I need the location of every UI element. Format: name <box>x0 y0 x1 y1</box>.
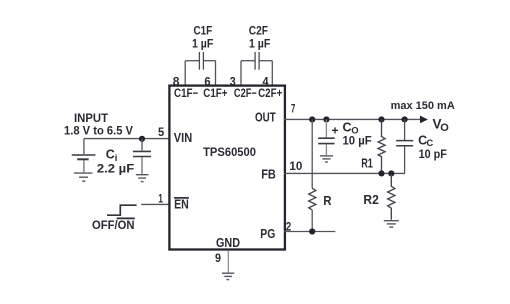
svg-text:C2F: C2F <box>249 25 268 37</box>
ground (battery) <box>74 173 93 181</box>
svg-text:C1F: C1F <box>194 25 213 37</box>
svg-text:1 µF: 1 µF <box>249 39 270 51</box>
capacitor C2F leads <box>241 60 255 62</box>
svg-text:INPUT: INPUT <box>74 113 108 125</box>
svg-text:7: 7 <box>291 101 296 115</box>
capacitor C2F plates <box>254 52 256 70</box>
svg-text:C1F+: C1F+ <box>203 86 227 100</box>
svg-text:+: + <box>332 123 339 137</box>
node: VIN junction dot <box>139 136 145 142</box>
ground (R2) <box>384 221 399 227</box>
svg-text:C2F−: C2F− <box>234 86 257 100</box>
svg-text:R: R <box>323 194 331 208</box>
battery input source stem <box>83 139 85 154</box>
svg-text:O: O <box>440 122 449 134</box>
wire: C2F down-leads to pins 3 and 4 <box>240 61 242 85</box>
resistor R lower wire <box>311 210 313 232</box>
node dot PG/R <box>309 228 315 234</box>
ground (Ci) <box>136 175 149 182</box>
wire: input VIN wire <box>84 138 169 140</box>
resistor R zigzag <box>309 188 316 210</box>
wire: FB net <box>284 172 405 174</box>
svg-text:C: C <box>343 120 352 134</box>
op-amp U1 TPS60500 IC body <box>169 86 285 250</box>
svg-text:GND: GND <box>216 235 240 250</box>
node dot OUT/Co <box>323 116 329 122</box>
battery input source long plate <box>72 154 96 156</box>
capacitor Cc lower stem <box>404 146 406 173</box>
svg-text:C: C <box>106 148 115 162</box>
battery input source short plate <box>77 158 89 160</box>
resistor R1 <box>378 119 385 173</box>
node dot OUT/R1 <box>378 116 384 122</box>
svg-text:C1F−: C1F− <box>174 86 198 100</box>
svg-text:OUT: OUT <box>255 109 276 124</box>
overline over ON <box>117 217 135 219</box>
svg-text:OFF/ON: OFF/ON <box>92 218 135 232</box>
capacitor Ci plates <box>133 150 151 152</box>
svg-text:C2F+: C2F+ <box>258 86 282 100</box>
svg-text:2.2 µF: 2.2 µF <box>97 162 134 176</box>
resistor R branch: upper wire <box>311 119 313 188</box>
capacitor Ci stem <box>141 139 143 151</box>
svg-text:1: 1 <box>158 191 163 205</box>
node dot FB/R2 <box>388 170 394 176</box>
wire: PG net <box>284 231 335 233</box>
node dot FB/R1 <box>378 170 384 176</box>
svg-text:R2: R2 <box>363 193 378 207</box>
capacitor Co lower stem <box>325 144 327 155</box>
svg-text:FB: FB <box>261 167 276 182</box>
wire: OUT net <box>284 118 420 120</box>
capacitor Cc plates <box>396 140 413 142</box>
node dot OUT/Cc <box>402 116 408 122</box>
arrow to VO <box>420 116 428 124</box>
svg-text:1.8 V to 6.5 V: 1.8 V to 6.5 V <box>64 125 133 137</box>
svg-text:max 150 mA: max 150 mA <box>391 100 455 112</box>
capacitor Cc stem <box>404 119 406 140</box>
wire: C1F down-leads to pins 8 and 6 <box>184 61 186 85</box>
wire: EN <box>141 203 169 205</box>
capacitor C1F leads <box>185 60 199 62</box>
ground (Co) <box>320 156 333 162</box>
svg-text:TPS60500: TPS60500 <box>203 145 256 159</box>
svg-text:10 µF: 10 µF <box>343 134 372 148</box>
battery lower stem <box>83 160 85 172</box>
capacitor Co stem <box>325 119 327 137</box>
node dot OUT/R <box>309 116 315 122</box>
svg-text:1 µF: 1 µF <box>192 39 213 51</box>
svg-text:R1: R1 <box>361 156 373 170</box>
capacitor C1F plates <box>198 52 200 70</box>
resistor R2 <box>388 173 395 219</box>
svg-text:PG: PG <box>260 226 275 241</box>
svg-text:VIN: VIN <box>174 130 192 145</box>
svg-text:EN: EN <box>174 197 189 212</box>
capacitor Ci lower stem <box>141 157 143 174</box>
svg-text:10: 10 <box>289 159 302 173</box>
svg-text:10 pF: 10 pF <box>419 147 447 161</box>
svg-text:5: 5 <box>158 125 164 139</box>
ground (GND pin) <box>222 273 234 279</box>
step waveform (enable signal) <box>107 205 137 215</box>
svg-text:9: 9 <box>215 251 221 265</box>
wire: GND pin 9 stem <box>227 251 229 273</box>
capacitor Co plates <box>318 137 334 139</box>
